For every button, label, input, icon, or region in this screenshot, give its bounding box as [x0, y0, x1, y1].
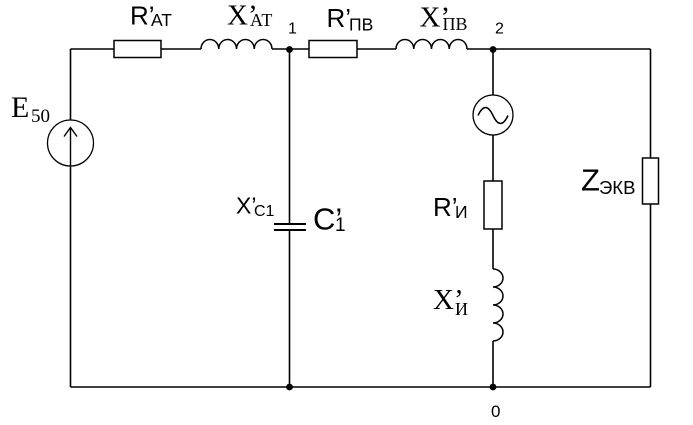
wire node 1 down to capacitor: [289, 49, 291, 223]
label C'1: [313, 202, 346, 237]
svg-text:R’: R’: [327, 3, 352, 33]
svg-text:И: И: [455, 299, 468, 319]
wire left rail upper: [70, 49, 72, 120]
svg-text:С1: С1: [254, 203, 275, 220]
svg-text:1: 1: [335, 215, 346, 236]
node 1: [286, 46, 293, 53]
label E50: [11, 91, 50, 127]
wire R'И to X'И: [492, 229, 494, 269]
svg-text:АТ: АТ: [151, 10, 172, 30]
svg-text:1: 1: [288, 21, 297, 38]
resistor R'ПВ: [309, 41, 357, 58]
wire top-left horizontal: [71, 48, 115, 50]
wire between R'АТ and X'АТ: [161, 48, 201, 50]
impedance Z ЭКВ: [643, 158, 659, 204]
wire bottom rail: [71, 386, 651, 388]
svg-text:АТ: АТ: [250, 10, 272, 30]
svg-text:R’: R’: [433, 192, 458, 222]
svg-text:ПВ: ПВ: [443, 14, 468, 34]
wire X'АТ to node 1 to R'ПВ: [272, 48, 309, 50]
label X'С1: [236, 193, 275, 221]
wire between R'ПВ and X'ПВ: [357, 48, 396, 50]
svg-text:Z: Z: [581, 163, 600, 198]
node 0: [490, 384, 497, 391]
wire capacitor down to bottom rail: [289, 231, 291, 387]
wire right rail upper: [650, 49, 652, 158]
svg-text:0: 0: [491, 402, 500, 421]
resistor R'АТ: [114, 41, 161, 58]
capacitor C'1: [274, 224, 306, 230]
wire X'И to node 0: [492, 341, 494, 387]
svg-text:E: E: [11, 91, 29, 124]
node 2: [490, 46, 497, 53]
svg-text:ПВ: ПВ: [349, 14, 373, 34]
label X'И: [433, 284, 468, 319]
wire X'ПВ through node 2 to top-right corner: [467, 48, 651, 50]
voltage source E50: [48, 120, 94, 166]
svg-text:2: 2: [495, 21, 504, 38]
label node 0: [491, 402, 500, 421]
label R'АТ: [130, 1, 172, 31]
wire left rail lower: [70, 166, 72, 387]
inductor X'И: [493, 269, 503, 341]
label node 2: [495, 21, 504, 38]
label Z ЭКВ: [581, 163, 635, 199]
AC source: [473, 95, 513, 135]
label R'ПВ: [327, 3, 374, 35]
svg-text:50: 50: [31, 106, 50, 127]
label X'АТ: [227, 0, 272, 32]
inductor X'ПВ: [396, 40, 467, 50]
node below capacitor on bottom rail: [286, 384, 293, 391]
svg-text:ЭКВ: ЭКВ: [599, 177, 635, 198]
inductor X'АТ: [201, 40, 272, 50]
resistor R'И: [484, 181, 502, 229]
label X'ПВ: [420, 2, 468, 35]
wire right rail lower: [650, 204, 652, 387]
label R'И: [433, 192, 468, 222]
wire node 2 down to AC source: [492, 49, 494, 95]
wire AC source to R'И: [492, 135, 494, 181]
svg-text:И: И: [455, 202, 468, 222]
label node 1: [288, 21, 297, 38]
